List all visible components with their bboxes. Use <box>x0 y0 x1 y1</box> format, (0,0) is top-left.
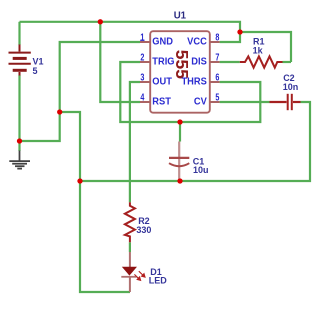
wire battery bottom to ground junction <box>18 75 20 151</box>
svg-text:555: 555 <box>172 50 192 79</box>
wire top VCC rail from battery to R1 riser <box>20 22 292 62</box>
junction bottom rail left <box>77 178 82 183</box>
svg-text:7: 7 <box>215 51 219 63</box>
svg-text:GND: GND <box>152 36 173 47</box>
svg-text:8: 8 <box>215 31 219 43</box>
svg-text:5: 5 <box>215 91 219 103</box>
svg-text:1k: 1k <box>253 46 264 56</box>
svg-text:LED: LED <box>149 276 168 286</box>
wire R1 right to VCC riser <box>283 61 292 63</box>
ground <box>9 151 30 169</box>
svg-text:RST: RST <box>152 96 171 107</box>
svg-text:DIS: DIS <box>191 56 207 67</box>
svg-text:6: 6 <box>215 71 219 83</box>
wire ground junction to GND pin 1 <box>20 42 141 141</box>
junction top rail RST <box>98 19 103 24</box>
LED light arrows <box>134 271 145 280</box>
svg-text:1: 1 <box>140 31 144 43</box>
wire CV pin 5 to C2 left <box>220 101 270 103</box>
LED D1 <box>121 252 136 292</box>
wire GND net across to LED return riser <box>60 112 130 292</box>
svg-text:4: 4 <box>140 91 144 103</box>
svg-text:330: 330 <box>136 225 151 235</box>
wire OUT pin 3 down to R2 <box>130 82 140 202</box>
wire DIS pin 7 to R1 left <box>220 61 240 63</box>
capacitor C2 <box>270 94 301 110</box>
resistor R1 <box>240 56 283 67</box>
svg-text:10n: 10n <box>283 82 299 92</box>
junction C1 top <box>177 119 182 124</box>
wire TRIG pin 2 down to C1 net and THRS pin 6 <box>120 62 260 122</box>
svg-text:OUT: OUT <box>152 76 172 87</box>
battery V1 <box>9 45 31 76</box>
pin stubs U1 <box>140 42 220 102</box>
junction battery ground <box>17 138 22 143</box>
svg-text:10u: 10u <box>193 165 209 175</box>
wire battery top lead <box>18 22 20 45</box>
svg-text:VCC: VCC <box>187 36 207 47</box>
wire RST pin 4 riser from top rail <box>100 22 140 102</box>
svg-text:V1: V1 <box>33 57 44 67</box>
svg-text:U1: U1 <box>174 10 187 21</box>
svg-text:TRIG: TRIG <box>152 56 174 67</box>
capacitor C1 polarized <box>169 142 189 181</box>
svg-text:5: 5 <box>33 66 38 76</box>
svg-text:3: 3 <box>140 71 144 83</box>
junction VCC net <box>237 29 242 34</box>
svg-text:CV: CV <box>194 96 208 107</box>
junction C1 bottom <box>177 178 182 183</box>
wire VCC pin 8 to top junction <box>220 32 240 42</box>
wire C1 top connection <box>179 122 181 142</box>
wire bottom ground rail to C2 right <box>80 102 310 181</box>
svg-text:THRS: THRS <box>181 76 206 87</box>
resistor R2 <box>125 202 135 242</box>
wire R2 bottom to LED anode <box>129 242 131 252</box>
pin number 1 base bar <box>140 39 144 41</box>
svg-text:2: 2 <box>140 51 144 63</box>
IC U1 555 timer body <box>150 31 210 113</box>
junction GND net left <box>57 109 62 114</box>
